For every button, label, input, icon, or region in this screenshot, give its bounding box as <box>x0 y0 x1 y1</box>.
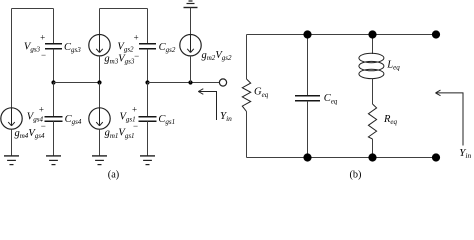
capacitor C_gs4 <box>45 117 63 122</box>
svg-text:Leq: Leq <box>386 59 400 71</box>
svg-text:Cgs4: Cgs4 <box>65 114 82 126</box>
resistor R_eq <box>368 104 376 139</box>
label C_gs4 <box>65 114 82 126</box>
svg-text:−: − <box>134 51 139 61</box>
port terminal dot (b) bottom <box>432 153 440 161</box>
svg-text:Vgs3: Vgs3 <box>24 41 41 53</box>
label C_gs2 <box>159 42 176 54</box>
svg-text:Ceq: Ceq <box>324 93 338 105</box>
label g_m4 V_gs4 <box>15 128 45 140</box>
inductor L_eq <box>359 53 384 78</box>
ground (top, above g_m2, inverted) <box>184 1 198 8</box>
svg-text:Cgs1: Cgs1 <box>158 114 175 126</box>
label R_eq <box>383 114 398 126</box>
svg-text:gm2Vgs2: gm2Vgs2 <box>202 50 232 62</box>
port terminal (a) open circle <box>219 79 226 86</box>
wire: C_gs1 to ground <box>147 121 149 156</box>
wire: C_eq branch upper <box>307 35 309 96</box>
label G_eq <box>254 87 269 99</box>
svg-text:+: + <box>134 33 139 43</box>
junction dot (R_eq bottom) <box>368 153 376 161</box>
junction dot (L_eq top) <box>368 30 376 38</box>
label L_eq <box>386 59 400 71</box>
svg-text:Vgs2: Vgs2 <box>117 41 134 53</box>
svg-text:gm3Vgs3: gm3Vgs3 <box>104 53 134 65</box>
Y_in arrow (a) <box>198 89 216 120</box>
wire: g_m4 to ground <box>11 129 13 156</box>
wire: C_gs3 branch top <box>53 9 55 45</box>
junction dot (C_eq top) <box>303 30 311 38</box>
svg-text:Yin: Yin <box>220 110 232 123</box>
label C_eq <box>324 93 338 105</box>
label g_m1 V_gs1 <box>105 128 135 140</box>
label g_m2 V_gs2 <box>202 50 232 62</box>
svg-text:Cgs3: Cgs3 <box>64 42 81 54</box>
svg-text:+: + <box>40 33 45 43</box>
wire: g_m3 to mid node <box>99 56 101 83</box>
wire: C_gs3 to mid node <box>53 49 55 83</box>
wire: mid node segment B to port <box>148 82 220 84</box>
wire: (b) top rail <box>247 34 437 36</box>
svg-text:+: + <box>39 105 44 115</box>
label V_gs2 with polarity <box>117 33 139 62</box>
ground (under g_m4) <box>4 156 19 165</box>
current source g_m3 <box>89 35 110 56</box>
capacitor C_eq <box>295 96 320 101</box>
wire: C_gs1 branch upper <box>147 83 149 117</box>
wire: g_m2 to mid node <box>190 56 192 83</box>
label Y_in (b) <box>459 147 471 160</box>
ground (under C_gs4) <box>46 156 61 165</box>
wire: (b) left branch upper <box>246 35 248 80</box>
Y_in arrow (b) <box>436 90 464 145</box>
node dot C (x=147) <box>145 80 149 84</box>
svg-text:−: − <box>41 121 46 131</box>
wire: between L_eq and R_eq <box>372 79 374 105</box>
current source g_m4 <box>1 108 22 129</box>
wire: C_gs2 to mid node <box>147 49 149 83</box>
wire: L_eq branch top lead <box>372 35 374 55</box>
svg-text:−: − <box>41 50 46 60</box>
label C_gs3 <box>64 42 81 54</box>
current source g_m1 <box>89 108 110 129</box>
svg-text:Cgs2: Cgs2 <box>159 42 176 54</box>
label Y_in (a) <box>220 110 232 123</box>
svg-text:Yin: Yin <box>459 147 471 160</box>
label g_m3 V_gs3 <box>104 53 134 65</box>
svg-text:Req: Req <box>383 114 398 126</box>
wire: C_gs4 branch upper <box>53 83 55 117</box>
capacitor C_gs1 <box>139 117 157 122</box>
svg-text:gm1Vgs1: gm1Vgs1 <box>105 128 135 140</box>
label V_gs3 with polarity <box>24 33 46 60</box>
label C_gs1 <box>158 114 175 126</box>
wire: C_gs2 branch top <box>147 9 149 45</box>
wire: top ground to g_m2 <box>190 8 192 35</box>
wire: C_gs4 to ground <box>53 121 55 156</box>
ground (under C_gs1) <box>140 156 155 165</box>
svg-text:−: − <box>133 121 138 131</box>
current source g_m2 <box>180 35 201 56</box>
wire: (b) left branch lower <box>246 112 248 158</box>
capacitor C_gs3 <box>45 44 62 49</box>
label V_gs4 with polarity <box>27 105 46 132</box>
label V_gs1 with polarity <box>120 105 139 131</box>
wire: C_eq branch lower <box>307 101 309 158</box>
wire: (a) loop1 top rail <box>12 8 54 10</box>
wire: g_m3 branch top <box>99 9 101 35</box>
wire: (a) loop2 top rail <box>100 8 148 10</box>
svg-text:(a): (a) <box>108 170 119 180</box>
svg-text:+: + <box>132 105 137 115</box>
svg-text:Geq: Geq <box>254 87 269 99</box>
caption (a) <box>108 170 119 181</box>
wire: g_m1 branch upper <box>99 83 101 108</box>
wire: (a) left branch vertical upper <box>11 9 13 108</box>
caption (b) <box>349 170 361 181</box>
ground (under g_m1) <box>92 156 107 165</box>
wire: g_m1 to ground <box>99 129 101 156</box>
wire: R_eq to bottom rail <box>372 139 374 158</box>
node dot D (x=190.3) <box>188 80 192 84</box>
wire: mid node segment A <box>54 82 100 84</box>
resistor G_eq <box>242 79 250 112</box>
junction dot (C_eq bottom) <box>303 153 311 161</box>
node dot B (x=99) <box>97 80 101 84</box>
node dot A (x=53.5) <box>51 80 55 84</box>
svg-text:(b): (b) <box>349 170 361 180</box>
capacitor C_gs2 <box>139 44 156 49</box>
port terminal dot (b) top <box>432 30 440 38</box>
wire: (b) bottom rail <box>247 157 437 159</box>
